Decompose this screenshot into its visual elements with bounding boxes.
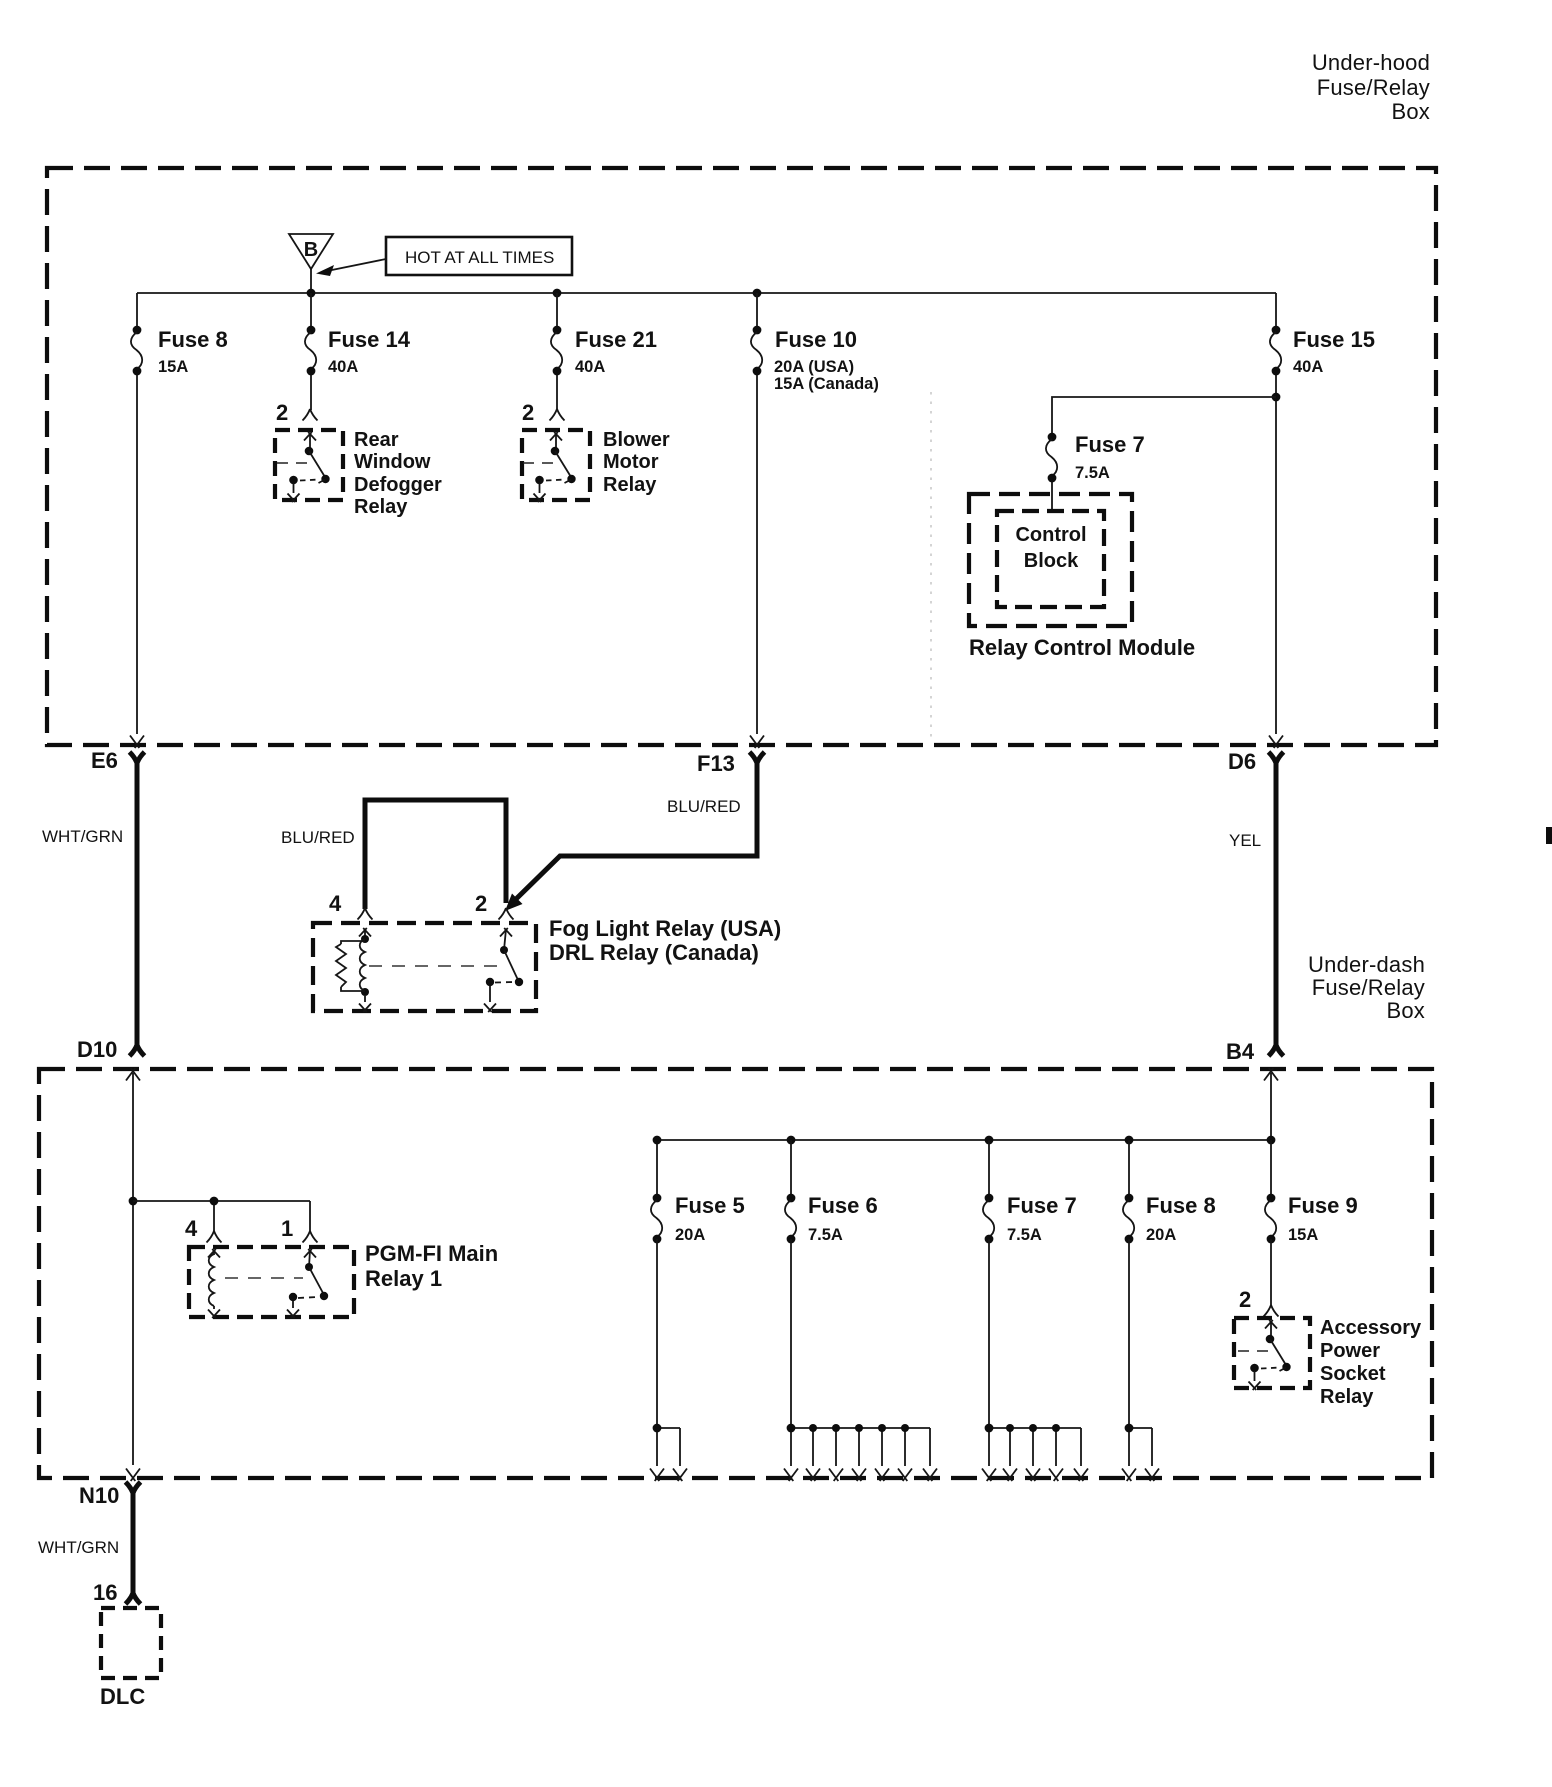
svg-text:Relay 1: Relay 1 xyxy=(365,1266,442,1291)
svg-text:Fuse 7: Fuse 7 xyxy=(1007,1193,1077,1218)
svg-text:15A: 15A xyxy=(158,358,188,376)
svg-text:Fuse 21: Fuse 21 xyxy=(575,327,657,352)
svg-text:Control: Control xyxy=(1015,524,1086,546)
svg-text:15A: 15A xyxy=(1288,1226,1318,1244)
svg-text:40A: 40A xyxy=(328,358,358,376)
svg-text:PGM-FI Main: PGM-FI Main xyxy=(365,1241,498,1266)
svg-text:Blower: Blower xyxy=(603,429,670,451)
svg-text:E6: E6 xyxy=(91,748,118,773)
svg-text:40A: 40A xyxy=(1293,358,1323,376)
svg-text:Power: Power xyxy=(1320,1340,1380,1362)
svg-text:Relay: Relay xyxy=(603,474,657,496)
svg-text:Relay: Relay xyxy=(354,496,408,518)
svg-text:Fuse/Relay: Fuse/Relay xyxy=(1312,975,1425,1000)
svg-text:N10: N10 xyxy=(79,1483,119,1508)
svg-text:2: 2 xyxy=(1239,1287,1251,1312)
svg-text:7.5A: 7.5A xyxy=(1075,464,1110,482)
svg-text:Window: Window xyxy=(354,451,431,473)
svg-text:1: 1 xyxy=(281,1216,293,1241)
svg-text:2: 2 xyxy=(475,891,487,916)
svg-text:Defogger: Defogger xyxy=(354,474,442,496)
svg-text:Fuse/Relay: Fuse/Relay xyxy=(1317,75,1430,100)
svg-text:Box: Box xyxy=(1391,99,1430,124)
svg-text:D6: D6 xyxy=(1228,749,1256,774)
svg-text:YEL: YEL xyxy=(1229,831,1261,850)
svg-text:Fuse 5: Fuse 5 xyxy=(675,1193,745,1218)
svg-text:Accessory: Accessory xyxy=(1320,1317,1422,1339)
svg-text:20A: 20A xyxy=(675,1226,705,1244)
svg-text:20A: 20A xyxy=(1146,1226,1176,1244)
svg-text:2: 2 xyxy=(522,400,534,425)
svg-text:20A (USA): 20A (USA) xyxy=(774,358,854,376)
svg-text:15A (Canada): 15A (Canada) xyxy=(774,375,879,393)
svg-text:WHT/GRN: WHT/GRN xyxy=(42,827,123,846)
svg-text:Socket: Socket xyxy=(1320,1363,1386,1385)
svg-text:Rear: Rear xyxy=(354,429,399,451)
svg-text:DRL Relay (Canada): DRL Relay (Canada) xyxy=(549,940,759,965)
svg-text:7.5A: 7.5A xyxy=(1007,1226,1042,1244)
svg-text:Fuse 6: Fuse 6 xyxy=(808,1193,878,1218)
svg-text:HOT AT ALL TIMES: HOT AT ALL TIMES xyxy=(405,248,554,267)
svg-text:Motor: Motor xyxy=(603,451,659,473)
svg-text:Fuse 7: Fuse 7 xyxy=(1075,432,1145,457)
svg-text:B4: B4 xyxy=(1226,1039,1255,1064)
svg-text:4: 4 xyxy=(329,891,342,916)
svg-text:Fog Light Relay (USA): Fog Light Relay (USA) xyxy=(549,916,781,941)
svg-text:Fuse 9: Fuse 9 xyxy=(1288,1193,1358,1218)
svg-text:DLC: DLC xyxy=(100,1684,145,1709)
svg-text:Fuse 14: Fuse 14 xyxy=(328,327,411,352)
svg-text:BLU/RED: BLU/RED xyxy=(281,828,355,847)
svg-text:16: 16 xyxy=(93,1580,117,1605)
svg-text:40A: 40A xyxy=(575,358,605,376)
svg-text:Under-hood: Under-hood xyxy=(1312,50,1430,75)
svg-text:7.5A: 7.5A xyxy=(808,1226,843,1244)
svg-text:B: B xyxy=(304,239,318,261)
svg-text:Box: Box xyxy=(1386,998,1425,1023)
svg-text:Fuse 8: Fuse 8 xyxy=(1146,1193,1216,1218)
svg-text:2: 2 xyxy=(276,400,288,425)
svg-text:4: 4 xyxy=(185,1216,198,1241)
svg-text:WHT/GRN: WHT/GRN xyxy=(38,1538,119,1557)
svg-text:Fuse 10: Fuse 10 xyxy=(775,327,857,352)
svg-text:Block: Block xyxy=(1024,550,1079,572)
svg-text:Under-dash: Under-dash xyxy=(1308,952,1425,977)
svg-text:F13: F13 xyxy=(697,751,735,776)
svg-text:Relay: Relay xyxy=(1320,1386,1374,1408)
svg-text:BLU/RED: BLU/RED xyxy=(667,797,741,816)
svg-text:Relay Control Module: Relay Control Module xyxy=(969,635,1195,660)
svg-text:Fuse 8: Fuse 8 xyxy=(158,327,228,352)
svg-text:D10: D10 xyxy=(77,1037,117,1062)
svg-text:Fuse 15: Fuse 15 xyxy=(1293,327,1375,352)
